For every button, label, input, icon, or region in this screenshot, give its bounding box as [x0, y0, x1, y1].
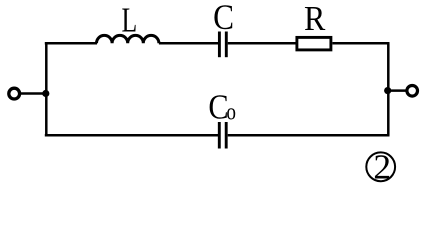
- svg-text:o: o: [226, 98, 236, 126]
- svg-text:L: L: [121, 1, 137, 40]
- svg-text:C: C: [208, 89, 228, 127]
- svg-text:C: C: [213, 0, 234, 38]
- svg-text:R: R: [304, 0, 326, 38]
- svg-text:2: 2: [373, 146, 391, 186]
